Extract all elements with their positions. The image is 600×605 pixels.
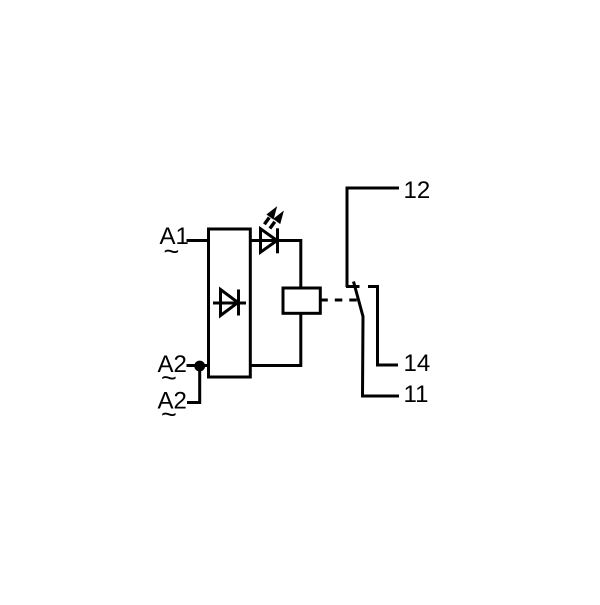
LED light arrow 1 <box>264 207 276 224</box>
dashed actuation link <box>320 299 357 302</box>
svg-text:14: 14 <box>404 350 431 377</box>
svg-text:~: ~ <box>161 400 177 430</box>
LED D1 <box>261 228 278 253</box>
NO contact tick and wire 14 <box>368 287 398 366</box>
junction dot <box>194 361 205 372</box>
wire A2 to rectifier <box>187 364 209 367</box>
NC contact tick <box>346 285 360 288</box>
LED light arrow 2 <box>270 212 283 229</box>
wire coil bottom to rectifier right <box>250 313 300 365</box>
wire contact 12 <box>347 188 399 287</box>
wire rectifier to LED to coil-top corner <box>250 241 300 289</box>
wire A1 to rectifier <box>187 239 209 242</box>
wire junction down to second A2 <box>187 366 200 403</box>
svg-text:11: 11 <box>404 381 429 408</box>
relay coil K1 <box>283 288 320 313</box>
diode inside rectifier <box>213 290 246 316</box>
bridge rectifier block <box>209 229 251 377</box>
svg-text:~: ~ <box>164 237 180 267</box>
switch arm to common 11 <box>354 282 400 397</box>
svg-text:12: 12 <box>404 177 431 204</box>
